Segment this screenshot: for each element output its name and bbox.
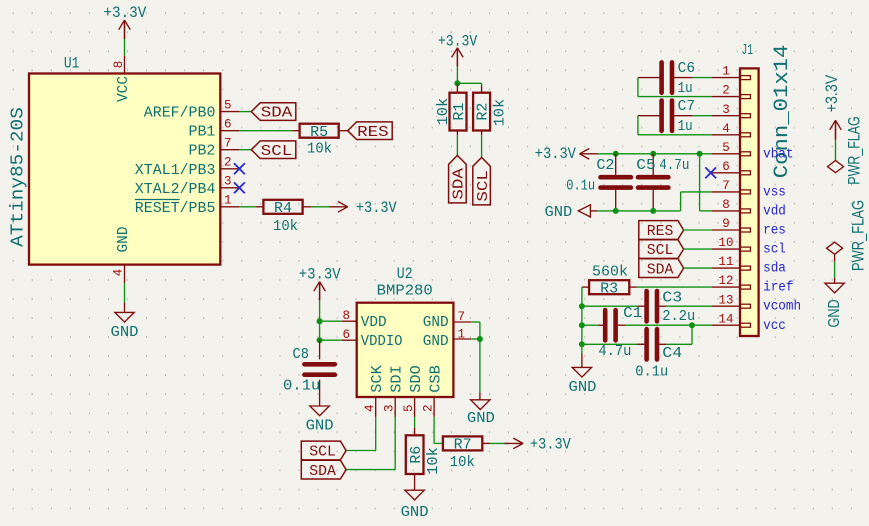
svg-text:1: 1 bbox=[722, 65, 730, 79]
svg-text:+3.3V: +3.3V bbox=[356, 199, 397, 217]
svg-text:PB2: PB2 bbox=[189, 143, 216, 160]
svg-text:SDA: SDA bbox=[261, 105, 293, 122]
svg-text:12: 12 bbox=[718, 274, 733, 288]
svg-text:PB1: PB1 bbox=[189, 124, 216, 141]
svg-text:GND: GND bbox=[115, 227, 132, 253]
svg-text:GND: GND bbox=[826, 299, 843, 327]
svg-text:VDD: VDD bbox=[361, 314, 387, 331]
svg-text:560k: 560k bbox=[592, 264, 628, 281]
svg-text:res: res bbox=[763, 224, 786, 239]
svg-text:C4: C4 bbox=[662, 345, 682, 362]
svg-text:4: 4 bbox=[722, 122, 730, 136]
svg-text:U2: U2 bbox=[397, 265, 413, 283]
svg-text:1u: 1u bbox=[678, 118, 693, 135]
svg-text:GND: GND bbox=[401, 504, 429, 521]
svg-text:C5: C5 bbox=[636, 157, 655, 174]
svg-text:5: 5 bbox=[722, 141, 730, 155]
svg-text:10k: 10k bbox=[492, 99, 509, 127]
svg-text:9: 9 bbox=[722, 217, 730, 231]
svg-text:R7: R7 bbox=[454, 438, 472, 454]
svg-text:C3: C3 bbox=[662, 290, 682, 307]
svg-text:vdd: vdd bbox=[763, 204, 786, 219]
svg-text:SCL: SCL bbox=[647, 242, 674, 259]
svg-text:2: 2 bbox=[422, 404, 436, 412]
svg-text:4: 4 bbox=[363, 404, 377, 412]
svg-text:8: 8 bbox=[112, 61, 126, 69]
svg-text:+3.3V: +3.3V bbox=[103, 4, 147, 22]
svg-text:RES: RES bbox=[647, 223, 674, 240]
svg-text:ATtiny85-20S: ATtiny85-20S bbox=[8, 107, 29, 247]
svg-text:vbat: vbat bbox=[763, 147, 793, 162]
svg-text:10k: 10k bbox=[450, 454, 475, 471]
svg-text:SDA: SDA bbox=[451, 168, 468, 200]
svg-text:XTAL2/PB4: XTAL2/PB4 bbox=[135, 181, 216, 198]
svg-text:R5: R5 bbox=[310, 125, 328, 141]
svg-text:1: 1 bbox=[458, 327, 466, 341]
svg-text:1: 1 bbox=[224, 194, 232, 208]
svg-text:RESET/PB5: RESET/PB5 bbox=[135, 200, 216, 217]
svg-text:BMP280: BMP280 bbox=[377, 283, 433, 300]
svg-text:7: 7 bbox=[458, 310, 466, 324]
svg-text:SDA: SDA bbox=[647, 261, 674, 278]
svg-text:SDA: SDA bbox=[309, 463, 336, 480]
svg-text:3: 3 bbox=[722, 103, 730, 117]
svg-text:4.7u: 4.7u bbox=[598, 343, 631, 360]
svg-text:GND: GND bbox=[467, 410, 495, 427]
svg-text:SCL: SCL bbox=[475, 170, 492, 202]
svg-text:3: 3 bbox=[383, 404, 397, 412]
svg-text:GND: GND bbox=[423, 333, 449, 350]
svg-text:13: 13 bbox=[718, 293, 733, 307]
svg-text:VCC: VCC bbox=[115, 76, 132, 102]
svg-text:6: 6 bbox=[342, 328, 350, 342]
svg-text:GND: GND bbox=[545, 204, 573, 221]
svg-text:R4: R4 bbox=[274, 201, 292, 217]
svg-text:C7: C7 bbox=[678, 98, 696, 115]
svg-text:+3.3V: +3.3V bbox=[535, 145, 577, 163]
svg-text:10k: 10k bbox=[307, 141, 332, 158]
svg-text:8: 8 bbox=[722, 198, 730, 212]
svg-text:2: 2 bbox=[224, 156, 232, 170]
svg-text:14: 14 bbox=[718, 312, 733, 326]
svg-text:10k: 10k bbox=[273, 218, 298, 235]
svg-text:11: 11 bbox=[718, 255, 733, 269]
svg-text:2: 2 bbox=[722, 84, 730, 98]
svg-text:10k: 10k bbox=[425, 447, 442, 475]
svg-text:5: 5 bbox=[224, 98, 232, 112]
svg-text:GND: GND bbox=[569, 379, 597, 396]
svg-text:4: 4 bbox=[111, 269, 125, 277]
svg-text:RES: RES bbox=[357, 124, 389, 141]
svg-text:2.2u: 2.2u bbox=[662, 308, 695, 325]
svg-text:SCL: SCL bbox=[309, 444, 336, 461]
svg-text:SCK: SCK bbox=[369, 365, 386, 393]
svg-text:PWR_FLAG: PWR_FLAG bbox=[845, 116, 864, 184]
svg-text:U1: U1 bbox=[64, 54, 80, 72]
svg-text:C2: C2 bbox=[596, 157, 614, 174]
svg-text:10: 10 bbox=[718, 236, 733, 250]
svg-text:VDDIO: VDDIO bbox=[361, 333, 403, 350]
svg-text:GND: GND bbox=[423, 314, 449, 331]
svg-text:4.7u: 4.7u bbox=[659, 157, 689, 174]
svg-text:C6: C6 bbox=[678, 60, 696, 77]
svg-text:scl: scl bbox=[763, 243, 786, 258]
svg-text:AREF/PB0: AREF/PB0 bbox=[144, 105, 216, 122]
svg-text:0.1u: 0.1u bbox=[635, 363, 668, 380]
svg-text:10k: 10k bbox=[435, 98, 452, 126]
svg-text:0.1u: 0.1u bbox=[566, 177, 595, 194]
svg-text:CSB: CSB bbox=[427, 365, 444, 393]
svg-text:R1: R1 bbox=[452, 103, 468, 121]
svg-text:J1: J1 bbox=[742, 42, 754, 59]
svg-text:SCL: SCL bbox=[261, 143, 293, 160]
svg-text:7: 7 bbox=[722, 179, 730, 193]
svg-text:5: 5 bbox=[402, 404, 416, 412]
svg-text:0.1u: 0.1u bbox=[283, 378, 320, 395]
svg-text:R3: R3 bbox=[600, 281, 618, 297]
svg-text:R6: R6 bbox=[409, 446, 425, 464]
svg-text:1u: 1u bbox=[678, 80, 693, 97]
svg-text:GND: GND bbox=[111, 324, 139, 341]
svg-text:8: 8 bbox=[342, 309, 350, 323]
svg-text:7: 7 bbox=[224, 137, 232, 151]
svg-text:sda: sda bbox=[763, 262, 786, 277]
svg-text:+3.3V: +3.3V bbox=[530, 435, 571, 453]
svg-text:vss: vss bbox=[763, 185, 786, 200]
svg-text:R2: R2 bbox=[476, 103, 492, 121]
svg-text:C8: C8 bbox=[293, 346, 309, 363]
svg-text:GND: GND bbox=[306, 417, 334, 434]
svg-text:vcomh: vcomh bbox=[763, 300, 801, 315]
svg-text:+3.3V: +3.3V bbox=[299, 266, 341, 284]
svg-text:PWR_FLAG: PWR_FLAG bbox=[849, 200, 868, 271]
svg-text:SDO: SDO bbox=[408, 365, 425, 393]
svg-text:XTAL1/PB3: XTAL1/PB3 bbox=[135, 162, 216, 179]
svg-text:SDI: SDI bbox=[388, 365, 405, 393]
svg-text:6: 6 bbox=[722, 160, 730, 174]
svg-text:3: 3 bbox=[224, 175, 232, 189]
svg-text:+3.3V: +3.3V bbox=[822, 74, 841, 112]
svg-text:C1: C1 bbox=[623, 305, 642, 322]
svg-text:6: 6 bbox=[224, 118, 232, 132]
svg-text:vcc: vcc bbox=[763, 319, 786, 334]
svg-text:iref: iref bbox=[763, 281, 793, 296]
